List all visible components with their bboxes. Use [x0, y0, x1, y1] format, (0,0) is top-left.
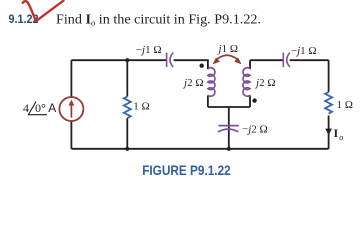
- resistor R2 1 ohm right: [325, 92, 332, 114]
- wire L2 leads: [249, 60, 251, 107]
- current source arrow: [70, 105, 72, 118]
- svg-text:I: I: [334, 126, 339, 140]
- inductor L2 j2 ohm right coil: [243, 68, 250, 97]
- capacitor C3 -j2 ohm center: [218, 126, 239, 132]
- coupling arrowhead left: [213, 58, 219, 64]
- red checkmark annotation: [23, 1, 64, 22]
- svg-text:o: o: [339, 133, 343, 142]
- node junction dot top (R1 top): [125, 58, 129, 62]
- capacitor C1 -j1 ohm top-left: [167, 53, 174, 67]
- wire L1 bottom lead: [207, 95, 209, 107]
- wire right vertical upper: [328, 60, 330, 92]
- svg-text:1 Ω: 1 Ω: [337, 99, 353, 111]
- angle symbol: [28, 102, 47, 115]
- wire coil bottom connector: [208, 106, 250, 108]
- node junction dot bottom (C3 bottom): [227, 147, 231, 151]
- svg-text:A: A: [48, 101, 56, 115]
- dot marking L1 (top-left): [200, 63, 204, 67]
- coupling arrowhead right: [235, 58, 241, 64]
- svg-text:−j2 Ω: −j2 Ω: [242, 123, 268, 135]
- svg-text:4: 4: [23, 101, 29, 115]
- wire center stub upper: [228, 107, 230, 129]
- wire top right section: [250, 59, 329, 61]
- inductor L1 j2 ohm left coil: [208, 68, 215, 97]
- svg-text:FIGURE P9.1.22: FIGURE P9.1.22: [142, 162, 231, 178]
- wire resistor branch lower: [126, 118, 128, 149]
- wire left vertical: [70, 60, 72, 149]
- svg-text:j2 Ω: j2 Ω: [254, 77, 276, 89]
- svg-text:j2 Ω: j2 Ω: [182, 77, 204, 89]
- current Io arrow: [325, 129, 332, 136]
- current source I1: [59, 97, 83, 121]
- mutual coupling arc j1 ohm: [215, 55, 240, 61]
- resistor R1 1 ohm left: [124, 97, 131, 119]
- svg-text:j1 Ω: j1 Ω: [217, 43, 239, 55]
- wire center stub lower: [228, 130, 230, 149]
- svg-text:0°: 0°: [35, 101, 46, 115]
- svg-text:−j1 Ω: −j1 Ω: [136, 44, 162, 56]
- wire bottom: [71, 148, 328, 150]
- svg-text:−j1 Ω: −j1 Ω: [291, 45, 317, 57]
- wire top left: [71, 59, 166, 61]
- node junction dot bottom (R1 bottom): [125, 147, 129, 151]
- wire right vertical lower: [328, 116, 330, 149]
- capacitor C2 -j1 ohm top-right: [283, 53, 290, 67]
- svg-text:Find Io in the circuit in Fig.: Find Io in the circuit in Fig. P9.1.22.: [56, 12, 261, 27]
- svg-text:1 Ω: 1 Ω: [133, 101, 149, 113]
- wire resistor branch upper: [126, 60, 128, 96]
- wire top middle (cap to L1 corner, down to coil): [174, 60, 208, 69]
- dot marking L2 (bottom-right): [252, 98, 256, 102]
